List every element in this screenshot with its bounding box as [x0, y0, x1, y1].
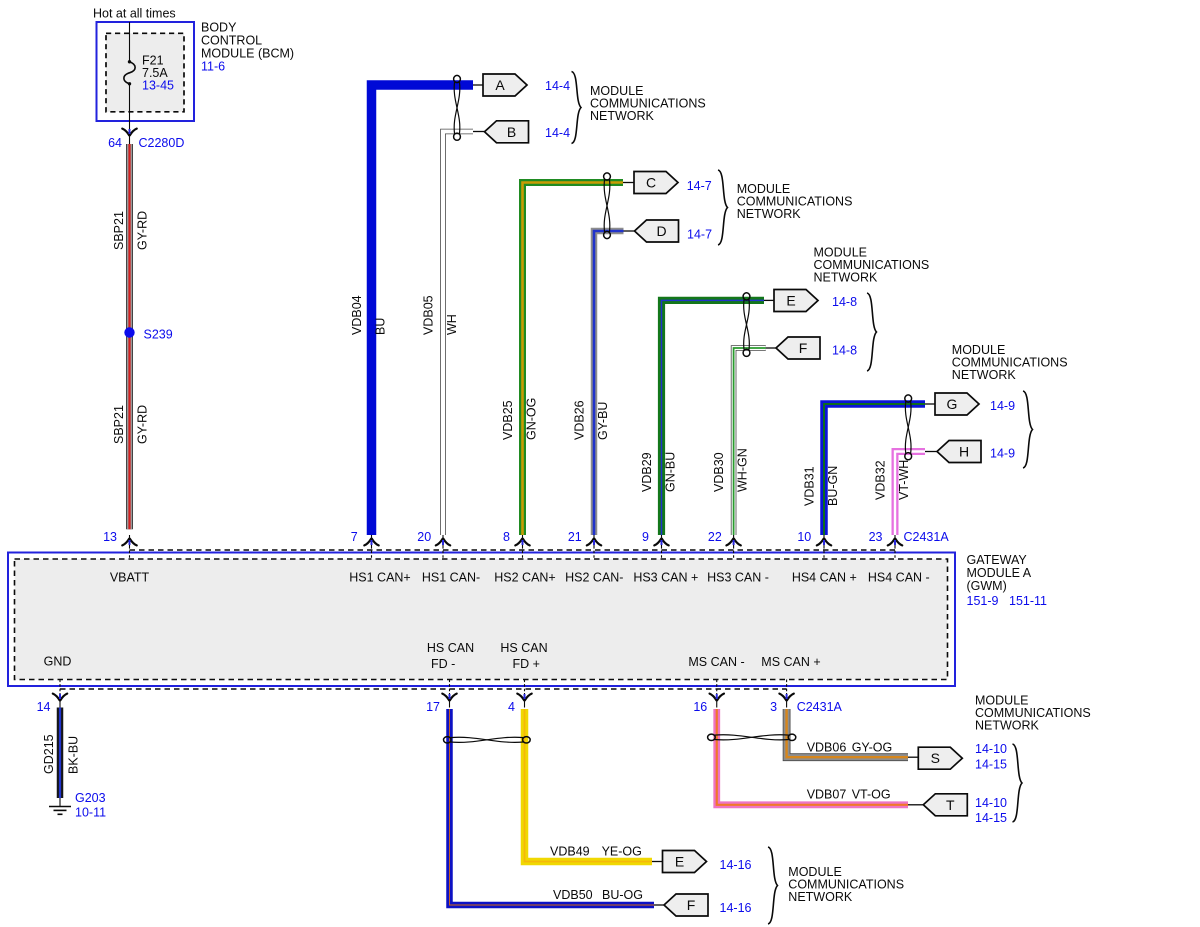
- wire VDB50 BU-OG: [450, 709, 655, 905]
- svg-text:MS CAN +: MS CAN +: [761, 655, 820, 669]
- connector B: [485, 121, 529, 143]
- label VDB30: [712, 452, 726, 492]
- wire stub to connector B: [473, 131, 485, 133]
- wire VDB31 BU-GN: [824, 404, 925, 535]
- svg-text:BK-BU: BK-BU: [67, 736, 81, 774]
- node HS1 CAN-: [422, 571, 480, 585]
- wire VDB32 VT-WH: [895, 452, 925, 536]
- label VDB49: [550, 845, 590, 859]
- svg-text:14-9: 14-9: [990, 447, 1015, 461]
- svg-text:F: F: [687, 897, 696, 913]
- label SBP21 (lower): [112, 405, 126, 444]
- svg-text:C2431A: C2431A: [797, 700, 843, 714]
- svg-text:14-15: 14-15: [975, 758, 1007, 772]
- svg-text:11-6: 11-6: [201, 60, 225, 74]
- label WH: [445, 314, 459, 335]
- svg-text:FD +: FD +: [513, 657, 540, 671]
- wire stub to connector E: [764, 299, 774, 301]
- wire stub to connector E (bottom): [652, 861, 663, 863]
- GWM label: [967, 553, 1048, 608]
- label: MODULE COMMUNICATIONS NETWORK (A/B): [590, 84, 706, 123]
- reference 14-16 (F): [720, 901, 752, 915]
- label: MODULE COMMUNICATIONS NETWORK (G/H): [952, 343, 1068, 382]
- svg-text:GY-BU: GY-BU: [596, 402, 610, 440]
- wire stub to connector A: [473, 84, 483, 86]
- connector C2280D pin 64: [108, 121, 184, 150]
- label VDB26: [573, 400, 587, 440]
- label VDB06: [807, 741, 847, 755]
- svg-text:BU-OG: BU-OG: [602, 888, 643, 902]
- svg-text:13-45: 13-45: [142, 79, 174, 93]
- wire SBP21 GY-RD: [126, 144, 133, 529]
- label VDB25: [501, 400, 515, 440]
- pin 7 (GWM top, HS1 CAN+): [351, 530, 379, 559]
- label SBP21 (upper): [112, 211, 126, 250]
- svg-text:(GWM): (GWM): [967, 579, 1007, 593]
- pin 8 (GWM top, HS2 CAN+): [503, 530, 530, 559]
- connector E (bottom): [663, 851, 707, 873]
- node MS CAN -: [688, 655, 744, 669]
- label: MODULE COMMUNICATIONS NETWORK (C/D): [737, 182, 853, 221]
- node HS3 CAN +: [633, 571, 698, 585]
- svg-text:HS CAN: HS CAN: [427, 641, 474, 655]
- svg-text:NETWORK: NETWORK: [975, 719, 1040, 733]
- label: MODULE COMMUNICATIONS NETWORK (S/T): [975, 694, 1091, 733]
- label VDB50: [553, 888, 593, 902]
- label GD215: [42, 734, 56, 774]
- label BK-BU: [67, 736, 81, 774]
- wire VDB30 WH-GN: [734, 348, 766, 535]
- wire VDB05 WH: [443, 132, 473, 536]
- svg-text:FD -: FD -: [431, 657, 455, 671]
- label GN-BU: [664, 452, 678, 492]
- label GY-RD (lower): [136, 405, 150, 444]
- svg-text:8: 8: [503, 530, 510, 544]
- pin 4 (GWM bottom): [508, 680, 532, 715]
- label BU-GN: [826, 466, 840, 506]
- wire VDB26 GY-BU: [594, 231, 624, 535]
- svg-text:23: 23: [869, 530, 883, 544]
- svg-text:C2280D: C2280D: [139, 136, 185, 150]
- wire stub to connector G: [925, 403, 935, 405]
- svg-text:20: 20: [417, 530, 431, 544]
- label GY-OG: [852, 741, 893, 755]
- label VDB32: [874, 460, 888, 500]
- twisted pair symbol 17/4: [444, 737, 531, 743]
- svg-text:HS4 CAN -: HS4 CAN -: [868, 571, 930, 585]
- label BU-OG: [602, 888, 643, 902]
- svg-text:NETWORK: NETWORK: [788, 890, 853, 904]
- brace S/T: [1013, 744, 1023, 822]
- label: MODULE COMMUNICATIONS NETWORK (bottom E/F): [788, 865, 904, 904]
- svg-text:14-10: 14-10: [975, 796, 1007, 810]
- svg-text:VDB30: VDB30: [712, 452, 726, 492]
- svg-text:CONTROL: CONTROL: [201, 34, 262, 48]
- svg-text:10-11: 10-11: [75, 806, 106, 820]
- svg-text:VT-WH: VT-WH: [897, 460, 911, 500]
- svg-text:VDB04: VDB04: [350, 295, 364, 335]
- pin 21 (GWM top, HS2 CAN-): [568, 530, 601, 559]
- connector E: [774, 290, 818, 312]
- brace E/F: [867, 293, 877, 371]
- svg-text:14-10: 14-10: [975, 742, 1007, 756]
- reference 14-8 (F): [832, 344, 857, 358]
- svg-text:NETWORK: NETWORK: [590, 109, 655, 123]
- svg-text:VDB50: VDB50: [553, 888, 593, 902]
- pin 17 (GWM bottom): [426, 680, 457, 715]
- svg-text:G: G: [947, 396, 958, 412]
- svg-text:NETWORK: NETWORK: [814, 271, 879, 285]
- svg-text:VDB26: VDB26: [573, 400, 587, 440]
- svg-text:10: 10: [797, 530, 811, 544]
- svg-text:SBP21: SBP21: [112, 405, 126, 444]
- node HS2 CAN+: [494, 571, 555, 585]
- pin 13 (GWM top, VBATT): [103, 530, 137, 559]
- twisted pair symbol 16/3: [708, 734, 796, 740]
- svg-text:VDB29: VDB29: [640, 452, 654, 492]
- pin 16 (GWM bottom): [693, 680, 724, 715]
- connector G: [935, 393, 979, 415]
- pin 23 (GWM top, HS4 CAN -): [869, 530, 903, 559]
- svg-text:HS1 CAN+: HS1 CAN+: [349, 571, 410, 585]
- svg-text:S: S: [931, 750, 940, 766]
- svg-text:C: C: [646, 175, 656, 191]
- svg-text:B: B: [507, 124, 516, 140]
- label WH-GN: [736, 448, 750, 492]
- wire stub to connector C: [623, 182, 634, 184]
- svg-text:HS3 CAN +: HS3 CAN +: [633, 571, 698, 585]
- node HS CAN FD +: [500, 641, 547, 671]
- svg-text:22: 22: [708, 530, 722, 544]
- label GY-RD (upper): [136, 211, 150, 250]
- svg-text:T: T: [946, 797, 955, 813]
- reference 14-4 (B): [545, 126, 570, 140]
- node HS4 CAN +: [792, 571, 857, 585]
- svg-text:VDB31: VDB31: [803, 466, 817, 506]
- svg-text:HS1 CAN-: HS1 CAN-: [422, 571, 480, 585]
- label: MODULE COMMUNICATIONS NETWORK (E/F): [814, 246, 930, 285]
- svg-text:VBATT: VBATT: [110, 571, 150, 585]
- svg-text:BU: BU: [374, 318, 388, 335]
- svg-text:GD215: GD215: [42, 734, 56, 774]
- ground G203: [49, 791, 106, 820]
- label VDB29: [640, 452, 654, 492]
- svg-text:14-7: 14-7: [687, 228, 712, 242]
- svg-text:3: 3: [770, 700, 777, 714]
- svg-text:151-9: 151-9: [967, 594, 999, 608]
- svg-text:14-15: 14-15: [975, 811, 1007, 825]
- reference 14-16 (E): [720, 858, 752, 872]
- wire stub to connector S: [908, 756, 918, 758]
- svg-text:D: D: [656, 223, 666, 239]
- svg-text:HS2 CAN-: HS2 CAN-: [565, 571, 623, 585]
- svg-text:E: E: [675, 854, 684, 870]
- wire stub to connector T: [908, 804, 923, 806]
- svg-text:A: A: [495, 77, 505, 93]
- svg-text:VT-OG: VT-OG: [852, 788, 891, 802]
- svg-text:VDB25: VDB25: [501, 400, 515, 440]
- svg-text:GY-OG: GY-OG: [852, 741, 893, 755]
- twisted pair symbol A/B: [454, 75, 461, 140]
- connector H: [937, 441, 981, 463]
- reference 14-8 (E): [832, 295, 857, 309]
- svg-text:HS3 CAN -: HS3 CAN -: [707, 571, 769, 585]
- label: BODY CONTROL MODULE (BCM) 11-6: [201, 21, 294, 74]
- reference 14-10 14-15 (S): [975, 742, 1007, 772]
- label VDB04: [350, 295, 364, 335]
- splice S239: [124, 327, 172, 341]
- brace G/H: [1023, 391, 1033, 468]
- node HS CAN FD -: [427, 641, 474, 671]
- connector label C2431A (top): [904, 530, 950, 544]
- connector D: [635, 220, 679, 242]
- wire stub to connector D: [624, 230, 635, 232]
- wire stub to connector H: [925, 451, 937, 453]
- svg-text:GATEWAY: GATEWAY: [967, 553, 1028, 567]
- reference 14-4 (A): [545, 79, 570, 93]
- svg-text:MS CAN -: MS CAN -: [688, 655, 744, 669]
- reference 14-10 14-15 (T): [975, 796, 1007, 825]
- svg-text:14: 14: [37, 700, 51, 714]
- label VDB05: [422, 295, 436, 335]
- reference 14-7 (C): [687, 179, 712, 193]
- pin 20 (GWM top, HS1 CAN-): [417, 530, 450, 559]
- svg-text:MODULE A: MODULE A: [967, 566, 1032, 580]
- svg-text:WH: WH: [445, 314, 459, 335]
- twisted pair symbol E/F: [743, 293, 750, 357]
- svg-text:13: 13: [103, 530, 117, 544]
- pin 22 (GWM top, HS3 CAN -): [708, 530, 741, 559]
- label VDB07: [807, 788, 847, 802]
- node VBATT: [110, 571, 150, 585]
- label VT-WH: [897, 460, 911, 500]
- connector F: [776, 337, 820, 359]
- svg-text:HS CAN: HS CAN: [500, 641, 547, 655]
- brace C/D: [718, 170, 728, 245]
- svg-text:MODULE (BCM): MODULE (BCM): [201, 47, 294, 61]
- svg-text:14-8: 14-8: [832, 344, 857, 358]
- svg-text:14-16: 14-16: [720, 858, 752, 872]
- node HS4 CAN -: [868, 571, 930, 585]
- reference 14-9 (H): [990, 447, 1015, 461]
- svg-text:16: 16: [693, 700, 707, 714]
- svg-text:14-16: 14-16: [720, 901, 752, 915]
- pin 3 (GWM bottom): [770, 680, 794, 715]
- svg-text:F: F: [799, 340, 808, 356]
- label BU: [374, 318, 388, 335]
- twisted pair symbol C/D: [604, 173, 611, 239]
- node GND: [44, 655, 72, 669]
- reference 14-7 (D): [687, 228, 712, 242]
- wire VDB06 GY-OG: [787, 709, 908, 757]
- pin 10 (GWM top, HS4 CAN +): [797, 530, 831, 559]
- module box: BODY CONTROL MODULE (BCM): [97, 22, 195, 121]
- svg-text:GY-RD: GY-RD: [136, 211, 150, 250]
- fuse F21 7.5A: [124, 22, 174, 121]
- svg-text:VDB07: VDB07: [807, 788, 847, 802]
- svg-text:NETWORK: NETWORK: [737, 207, 802, 221]
- svg-text:YE-OG: YE-OG: [602, 845, 642, 859]
- label: Hot at all times: [93, 7, 176, 21]
- svg-text:7: 7: [351, 530, 358, 544]
- svg-text:64: 64: [108, 136, 122, 150]
- reference 14-9 (G): [990, 399, 1015, 413]
- wire VDB04 BU: [372, 85, 474, 535]
- pin 9 (GWM top, HS3 CAN +): [642, 530, 669, 559]
- svg-text:SBP21: SBP21: [112, 211, 126, 250]
- node HS2 CAN-: [565, 571, 623, 585]
- svg-text:14-7: 14-7: [687, 179, 712, 193]
- svg-text:VDB05: VDB05: [422, 295, 436, 335]
- svg-text:E: E: [786, 293, 795, 309]
- connector S: [918, 747, 962, 769]
- svg-text:NETWORK: NETWORK: [952, 368, 1017, 382]
- svg-text:WH-GN: WH-GN: [736, 448, 750, 492]
- svg-text:14-8: 14-8: [832, 295, 857, 309]
- svg-text:HS4 CAN +: HS4 CAN +: [792, 571, 857, 585]
- label GY-BU: [596, 402, 610, 440]
- connector F (bottom): [664, 894, 708, 916]
- svg-text:14-4: 14-4: [545, 126, 570, 140]
- wire VDB07 VT-OG: [717, 709, 908, 805]
- svg-text:9: 9: [642, 530, 649, 544]
- module box: GATEWAY MODULE A (GWM): [8, 553, 955, 687]
- node HS3 CAN -: [707, 571, 769, 585]
- svg-text:GND: GND: [44, 655, 72, 669]
- svg-text:14-4: 14-4: [545, 79, 570, 93]
- svg-text:GN-BU: GN-BU: [664, 452, 678, 492]
- svg-text:HS2 CAN+: HS2 CAN+: [494, 571, 555, 585]
- connector C: [634, 172, 678, 194]
- svg-text:VDB32: VDB32: [874, 460, 888, 500]
- svg-text:VDB06: VDB06: [807, 741, 847, 755]
- svg-text:VDB49: VDB49: [550, 845, 590, 859]
- svg-text:21: 21: [568, 530, 582, 544]
- pin 14 (GWM bottom): [37, 680, 68, 715]
- connector A: [483, 74, 527, 96]
- svg-text:17: 17: [426, 700, 440, 714]
- wire VDB25 GN-OG: [523, 183, 624, 536]
- svg-text:4: 4: [508, 700, 515, 714]
- svg-text:GN-OG: GN-OG: [525, 398, 539, 440]
- wire stub to connector F (bottom): [654, 904, 664, 906]
- twisted pair symbol G/H: [905, 395, 912, 460]
- node HS1 CAN+: [349, 571, 410, 585]
- svg-text:C2431A: C2431A: [904, 530, 950, 544]
- brace bottom E/F: [768, 847, 778, 924]
- label VDB31: [803, 466, 817, 506]
- wire stub to connector F: [766, 347, 776, 349]
- wire VDB49 YE-OG: [525, 709, 653, 862]
- svg-text:BU-GN: BU-GN: [826, 466, 840, 506]
- svg-text:BODY: BODY: [201, 21, 237, 35]
- label YE-OG: [602, 845, 642, 859]
- svg-text:G203: G203: [75, 791, 106, 805]
- wire VDB29 GN-BU: [662, 300, 765, 535]
- brace A/B: [572, 72, 582, 144]
- svg-text:14-9: 14-9: [990, 399, 1015, 413]
- svg-text:S239: S239: [144, 328, 173, 342]
- node MS CAN +: [761, 655, 820, 669]
- svg-text:H: H: [959, 444, 969, 460]
- label GN-OG: [525, 398, 539, 440]
- svg-text:Hot at all times: Hot at all times: [93, 7, 176, 21]
- svg-text:151-11: 151-11: [1009, 594, 1047, 608]
- wire GD215 BK-BU: [57, 708, 64, 799]
- connector T: [923, 794, 967, 816]
- connector dashed line C2431A (GWM top): [130, 549, 896, 551]
- connector dashed line C2431A (GWM bottom): [60, 688, 787, 690]
- svg-text:GY-RD: GY-RD: [136, 405, 150, 444]
- connector label C2431A (bottom): [797, 700, 843, 714]
- label VT-OG: [852, 788, 891, 802]
